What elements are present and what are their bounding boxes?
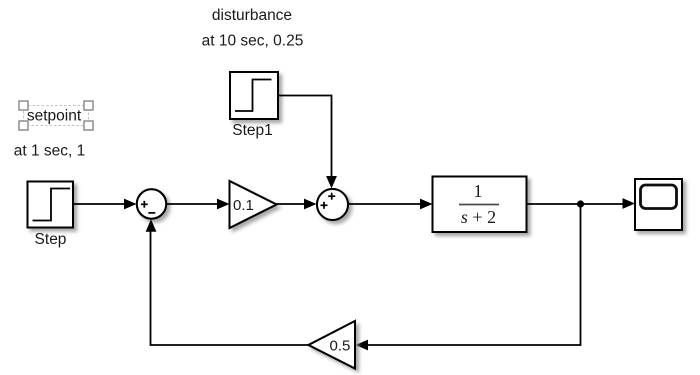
- svg-text:at 1 sec, 1: at 1 sec, 1: [14, 143, 86, 160]
- svg-text:s + 2: s + 2: [461, 207, 496, 227]
- transfer function block 1/(s+2): [433, 177, 527, 233]
- junction node dot: [577, 200, 584, 207]
- feedback wire from junction down and left to Gain 0.5 with arrowhead: [356, 204, 581, 350]
- svg-text:Step1: Step1: [232, 122, 273, 139]
- wire Step1 to Sum2 (right then down) with arrowhead: [279, 96, 337, 189]
- wire Step to Sum1 with arrowhead: [74, 199, 137, 210]
- sum junction Sum1 (+,-): [137, 189, 166, 218]
- gain block 0.1: [230, 181, 277, 228]
- svg-text:setpoint: setpoint: [27, 108, 82, 125]
- svg-text:at 10 sec, 0.25: at 10 sec, 0.25: [202, 33, 304, 50]
- step source block Step: [28, 182, 74, 228]
- wire Gain 0.1 to Sum2 with arrowhead: [277, 199, 317, 210]
- annotation "setpoint" with selection handles: [19, 101, 93, 130]
- wire Transfer Fcn to Scope with junction node and arrowhead: [527, 198, 636, 209]
- feedback wire from Gain 0.5 left and up to Sum1 with arrowhead: [146, 219, 309, 345]
- svg-text:disturbance: disturbance: [212, 7, 292, 24]
- wire Sum1 to Gain 0.1 with arrowhead: [166, 199, 229, 210]
- svg-text:0.1: 0.1: [233, 197, 254, 214]
- gain block 0.5 (left pointing): [309, 321, 356, 369]
- wire Sum2 to Transfer Fcn with arrowhead: [348, 199, 433, 210]
- sum junction Sum2 (+,+): [317, 189, 348, 220]
- scope block: [635, 179, 682, 230]
- step source block Step1: [230, 72, 278, 119]
- svg-text:1: 1: [474, 181, 483, 201]
- svg-text:0.5: 0.5: [330, 338, 351, 355]
- svg-text:Step: Step: [35, 231, 67, 248]
